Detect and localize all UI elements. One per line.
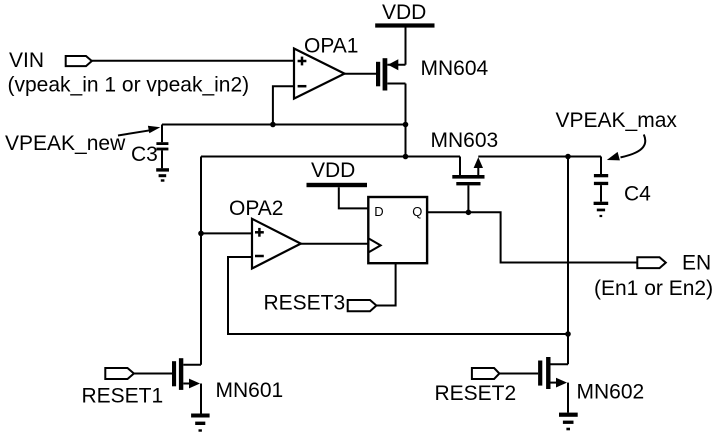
- node junction (MN604 source): [403, 122, 409, 128]
- wire OPA2 + input: [201, 232, 252, 234]
- transistor MN603: [452, 157, 484, 213]
- svg-text:(vpeak_in 1 or vpeak_in2): (vpeak_in 1 or vpeak_in2): [8, 74, 250, 97]
- node junction (lower rail): [403, 154, 409, 160]
- wire VIN to OPA1 +: [92, 60, 294, 62]
- svg-text:Q: Q: [412, 204, 422, 219]
- svg-text:VDD: VDD: [382, 1, 426, 24]
- node junction (bottom loop / right rail): [565, 331, 571, 337]
- transistor MN602: [499, 357, 568, 413]
- wire RESET3 to DFF: [376, 263, 395, 305]
- wire right loop down: [567, 157, 569, 365]
- wire OPA1 output to MN604 gate: [345, 73, 377, 75]
- svg-text:MN602: MN602: [577, 381, 645, 404]
- svg-text:RESET1: RESET1: [82, 385, 164, 408]
- wire OPA2 minus feedback loop: [228, 257, 568, 334]
- svg-text:OPA2: OPA2: [229, 197, 283, 220]
- port RESET2: [472, 368, 500, 379]
- wire lower rail right segment: [478, 156, 601, 158]
- port EN: [637, 257, 666, 268]
- svg-text:EN: EN: [682, 252, 711, 275]
- wire OPA2 output to DFF clock: [301, 243, 369, 245]
- capacitor C3: [156, 125, 168, 169]
- transistor MN604: [376, 28, 406, 125]
- op-amp OPA2: [252, 219, 301, 269]
- wire Q output: [427, 212, 637, 262]
- ground (C4): [594, 202, 609, 217]
- port VIN: [66, 56, 92, 66]
- wire MN604 source down to lower rail: [405, 125, 407, 157]
- svg-text:D: D: [374, 204, 383, 219]
- svg-text:MN603: MN603: [431, 129, 499, 152]
- wire lower rail left segment: [201, 156, 460, 158]
- wire left loop down: [200, 157, 202, 365]
- svg-text:VPEAK_max: VPEAK_max: [556, 109, 678, 132]
- svg-text:VDD: VDD: [311, 159, 355, 182]
- power VDD rail (DFF D input): [307, 183, 368, 187]
- wire VPEAK_new net: [162, 124, 406, 126]
- svg-text:VPEAK_new: VPEAK_new: [5, 132, 126, 155]
- op-amp OPA1: [294, 49, 345, 99]
- svg-text:MN601: MN601: [216, 379, 284, 402]
- port RESET3: [348, 300, 377, 311]
- ground (MN601): [191, 414, 210, 432]
- power VDD rail (top): [375, 23, 434, 27]
- ground (MN602): [559, 413, 578, 431]
- svg-text:RESET3: RESET3: [264, 292, 346, 315]
- node junction (MN603 gate): [466, 210, 472, 216]
- svg-text:RESET2: RESET2: [435, 382, 517, 405]
- node junction (right rail top): [565, 154, 571, 160]
- svg-text:OPA1: OPA1: [304, 35, 358, 58]
- capacitor C4: [594, 157, 608, 202]
- port RESET1: [105, 368, 134, 379]
- node junction (OPA2 +): [198, 231, 204, 237]
- arrow VPEAK_new pointer: [118, 126, 160, 136]
- svg-text:VIN: VIN: [9, 49, 44, 72]
- wire OPA1 minus feedback: [273, 86, 294, 124]
- svg-text:C4: C4: [624, 183, 651, 206]
- node junction (OPA1 minus / VPEAK_new): [270, 122, 276, 128]
- arrow VPEAK_max pointer (curved): [607, 135, 646, 161]
- svg-text:(En1 or En2): (En1 or En2): [594, 277, 713, 300]
- wire VDD to D input: [339, 187, 369, 208]
- svg-text:C3: C3: [131, 143, 158, 166]
- flip-flop U1: [368, 197, 427, 263]
- ground (C3): [156, 168, 169, 182]
- svg-text:MN604: MN604: [421, 57, 489, 80]
- transistor MN601: [134, 358, 201, 413]
